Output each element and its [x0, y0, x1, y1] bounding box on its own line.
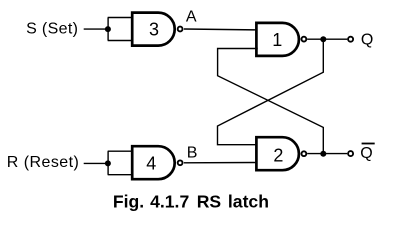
- label Qbar overline: [362, 143, 375, 145]
- junction: R input split: [105, 160, 111, 166]
- NAND gate 2: [256, 137, 299, 170]
- wire: R input lead: [84, 162, 108, 164]
- wire: gate 3 paralleled input stubs: [108, 18, 134, 41]
- wire: feedback Q to gate 2 upper input: [218, 39, 324, 145]
- wire: gate 1 output to Q terminal: [307, 38, 347, 40]
- gate 2 output inversion bubble: [302, 151, 307, 156]
- NAND gate 4: [132, 146, 175, 179]
- svg-text:Fig.4.1.7RSlatch: Fig.4.1.7RSlatch: [113, 191, 269, 211]
- wire: node B (gate 4 output to gate 2 input): [184, 162, 258, 164]
- gate 1 output inversion bubble: [302, 37, 307, 42]
- svg-text:4: 4: [146, 154, 156, 174]
- gate 3 output inversion bubble: [178, 27, 183, 32]
- svg-text:A: A: [186, 9, 197, 26]
- Qbar output terminal: [348, 151, 353, 156]
- svg-text:3: 3: [149, 20, 159, 40]
- svg-text:Q: Q: [360, 145, 372, 162]
- junction: Qbar node: [320, 151, 326, 157]
- svg-text:R (Reset): R (Reset): [7, 154, 80, 171]
- svg-text:S (Set): S (Set): [26, 20, 78, 37]
- svg-text:Q: Q: [361, 31, 373, 48]
- gate 4 output inversion bubble: [178, 160, 183, 165]
- wire: gate 2 output to Qbar terminal: [307, 153, 347, 155]
- junction: S input split: [105, 26, 111, 32]
- Q output terminal: [348, 37, 353, 42]
- svg-text:2: 2: [273, 146, 283, 166]
- svg-text:B: B: [187, 144, 198, 161]
- NAND gate 3: [132, 13, 175, 46]
- wire: gate 4 paralleled input stubs: [108, 151, 134, 175]
- junction: Q node: [320, 36, 326, 42]
- NAND gate 1: [256, 23, 299, 56]
- svg-text:1: 1: [272, 30, 282, 50]
- wire: S input lead: [84, 28, 108, 30]
- wire: feedback Qbar to gate 1 lower input: [218, 49, 324, 154]
- wire: node A (gate 3 output to gate 1 input): [184, 28, 258, 31]
